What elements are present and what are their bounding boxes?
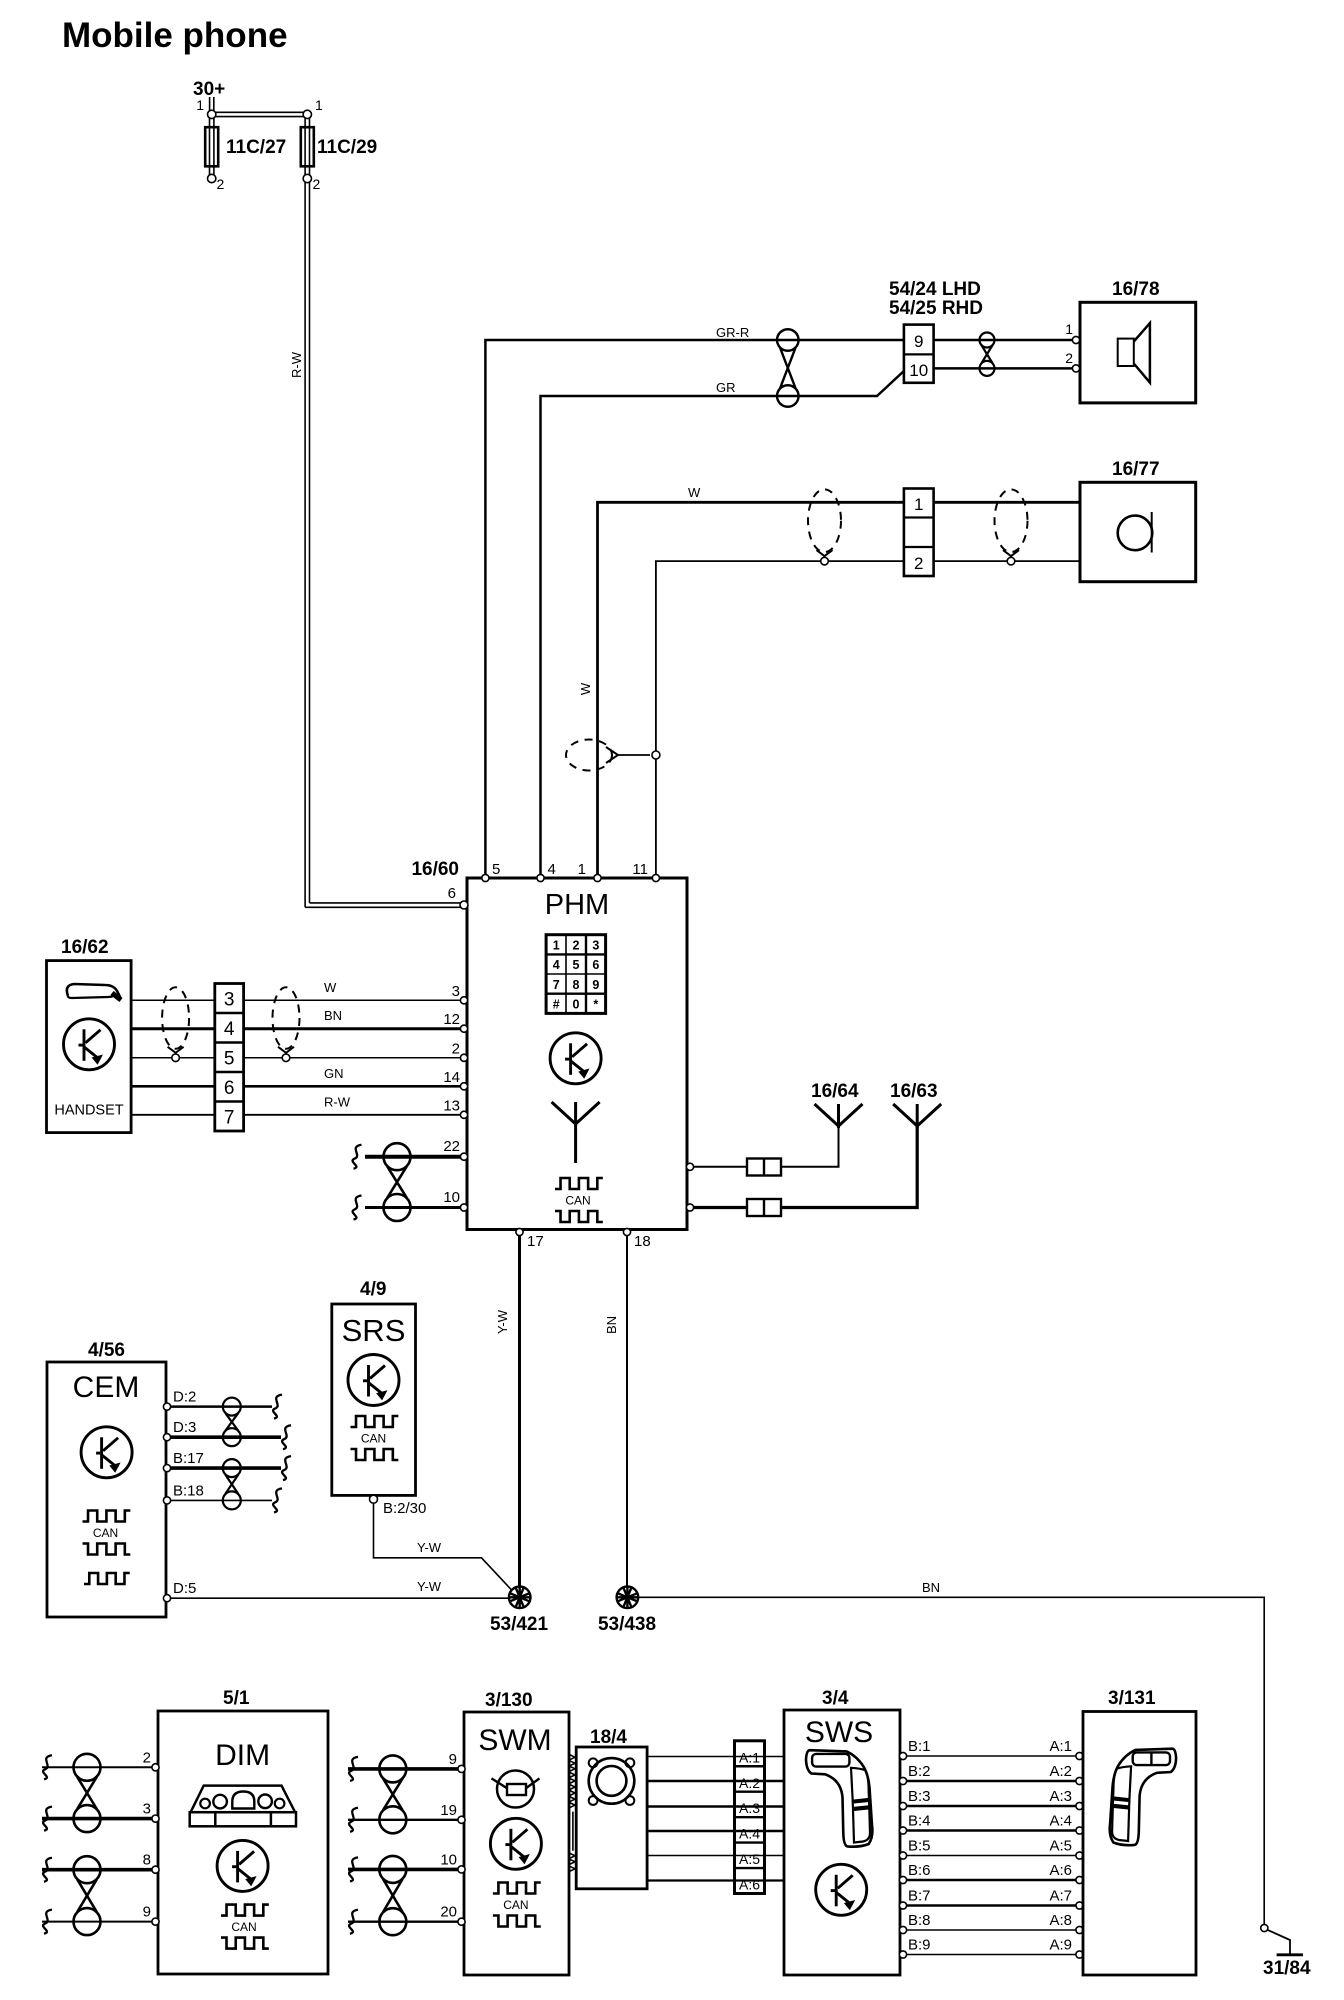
svg-text:3/4: 3/4 [822,1688,849,1709]
svg-text:A:3: A:3 [739,1800,760,1816]
wire Y-W PHM pin 17 to ground 53/421 [518,1233,521,1587]
svg-text:4: 4 [548,861,556,878]
pin B:5 SWS [899,1852,906,1859]
wire GR from PHM pin 4 to connector 54 [541,371,904,878]
svg-text:9: 9 [914,332,923,351]
ground 53/438 [617,1587,639,1609]
handset K symbol [64,1019,115,1070]
handset shield 1 [162,987,189,1049]
wire R-W double line to PHM pin 6 [304,182,306,907]
wire SWS B:4 to 3/131 A:4 [907,1829,1076,1832]
wire to antenna 16/64 [693,1166,747,1168]
svg-text:BN: BN [922,1580,940,1595]
svg-text:6: 6 [592,958,599,972]
wire SWM pin 20 [348,1920,460,1922]
svg-text:5/1: 5/1 [223,1688,250,1709]
break pin 10 cable [353,1196,362,1220]
svg-text:11C/27: 11C/27 [226,137,286,158]
wire 18/4 to SWS A:4 [647,1830,784,1833]
svg-text:B:3: B:3 [908,1788,931,1805]
pin 22 PHM [460,1153,467,1160]
pin B:6 SWS [899,1876,906,1883]
svg-text:D:3: D:3 [173,1419,196,1436]
svg-text:#: # [553,998,560,1012]
wire connector to PHM pin 2 [244,1057,463,1059]
CEM CAN symbol [83,1511,131,1522]
pin 3 DIM [152,1815,159,1822]
SWM K symbol [490,1818,541,1869]
svg-text:53/438: 53/438 [598,1614,656,1635]
pin 9 DIM [152,1918,159,1925]
ground 31/84 [1277,1953,1303,1956]
svg-text:GN: GN [324,1066,344,1081]
break CEM D:2 [273,1395,282,1419]
pin B:8 SWS [899,1926,906,1933]
inline connector antenna 16/63 [747,1199,781,1216]
wire 18/4 to SWS A:5 [647,1855,784,1857]
svg-text:B:17: B:17 [173,1450,204,1467]
break pin 22 cable [353,1145,362,1169]
break DIM pin 8 [43,1858,52,1882]
break CEM B:17 [282,1456,291,1480]
pin A:6 3/131 [1076,1876,1083,1883]
fuse 11C/29 [304,118,306,175]
PHM antenna symbol [552,1102,600,1126]
pin 1 speaker [1072,336,1079,343]
svg-text:17: 17 [527,1233,544,1250]
wire DIM pin 8 [42,1868,154,1872]
SWM to 18/4 pin bumps [570,1755,576,1760]
svg-text:W: W [688,485,701,500]
handset icon [67,984,121,999]
svg-text:2: 2 [573,939,580,953]
svg-text:53/421: 53/421 [490,1614,549,1635]
svg-text:A:6: A:6 [739,1877,760,1893]
svg-text:B:9: B:9 [908,1937,931,1954]
svg-text:R-W: R-W [289,351,304,378]
svg-text:18: 18 [634,1233,651,1250]
svg-text:1: 1 [1065,321,1073,337]
wire 18/4 to SWS A:1 [647,1756,784,1758]
svg-text:B:7: B:7 [908,1888,931,1905]
wire connector to microphone pin 2 [934,560,1080,562]
svg-text:A:6: A:6 [1049,1862,1072,1879]
svg-text:CAN: CAN [361,1432,386,1446]
svg-text:54/25 RHD: 54/25 RHD [889,298,983,319]
wire SWS B:3 to 3/131 A:3 [907,1805,1076,1808]
svg-text:16/64: 16/64 [811,1081,859,1102]
wire 18/4 to SWS A:2 [647,1780,784,1783]
wire connector to PHM pin 13 [244,1114,463,1116]
pin 1 PHM [594,874,601,881]
pin D:5 CEM [163,1595,170,1602]
svg-text:7: 7 [224,1108,235,1129]
svg-text:8: 8 [143,1852,151,1869]
wire SWS B:7 to 3/131 A:7 [907,1904,1076,1907]
inline connector antenna 16/64 [747,1159,781,1176]
svg-text:16/63: 16/63 [890,1081,938,1102]
svg-text:3: 3 [224,990,235,1011]
svg-text:BN: BN [604,1316,619,1334]
svg-text:10: 10 [443,1189,460,1206]
18/4 circular connector icon [589,1758,635,1804]
wire to ground terminal 31/84 [1267,1930,1290,1954]
svg-text:6: 6 [448,885,456,902]
svg-text:4/56: 4/56 [88,1340,125,1361]
svg-text:A:2: A:2 [1049,1763,1072,1780]
svg-text:16/60: 16/60 [411,859,459,880]
svg-text:BN: BN [324,1008,342,1023]
svg-text:3: 3 [143,1801,151,1818]
pin 5 PHM [482,874,489,881]
svg-text:CEM: CEM [73,1371,140,1404]
wire SWS B:1 to 3/131 A:1 [907,1755,1076,1757]
wire SWS B:6 to 3/131 A:6 [907,1879,1076,1882]
wire SWM pin 10 [348,1868,460,1872]
pin B:7 SWS [899,1902,906,1909]
twisted pair DIM 8/9 [74,1856,101,1883]
svg-text:10: 10 [440,1851,457,1868]
pin A:5 3/131 [1076,1852,1083,1859]
svg-text:SWS: SWS [805,1716,873,1749]
break CEM D:3 [282,1425,291,1449]
svg-text:4: 4 [224,1019,235,1040]
wire Y-W CEM D:5 to ground [170,1597,509,1599]
wire CEM B:18 [170,1499,272,1501]
pin 2 fuse 11C/27 [208,174,216,182]
CEM K symbol [81,1427,132,1478]
svg-text:9: 9 [592,978,599,992]
svg-text:54/24 LHD: 54/24 LHD [889,279,981,300]
DIM K symbol [217,1840,268,1891]
svg-text:16/77: 16/77 [1112,459,1160,480]
pin 10 PHM [460,1204,467,1211]
svg-text:31/84: 31/84 [1263,1958,1311,1979]
SWM CAN symbol [493,1883,541,1894]
svg-text:D:5: D:5 [173,1580,196,1597]
pin A:3 3/131 [1076,1802,1083,1809]
svg-text:A:1: A:1 [1049,1738,1072,1755]
svg-text:3: 3 [592,939,599,953]
pin 1 fuse 11C/27 [208,110,216,118]
svg-text:4: 4 [553,958,560,972]
svg-text:2: 2 [217,176,225,192]
pin 1 fuse 11C/29 [303,110,311,118]
twisted pair DIM 2/3 [74,1754,101,1781]
svg-text:A:2: A:2 [739,1775,760,1791]
svg-text:PHM: PHM [545,889,609,921]
CEM square wave symbol [84,1573,130,1584]
twisted pair SWM 10/20 [379,1856,406,1883]
connector 16/77 leads [904,489,934,577]
SRS CAN symbol [351,1416,399,1427]
wire Y-W from SRS to ground 53/421 [374,1503,514,1592]
svg-text:4/9: 4/9 [360,1279,386,1300]
svg-text:6: 6 [224,1078,235,1099]
wire 18/4 to SWS A:3 [647,1805,784,1808]
pin 2 fuse 11C/29 [303,174,311,182]
svg-text:A:3: A:3 [1049,1788,1072,1805]
wire connector to antenna 16/63 [781,1126,917,1208]
svg-text:2: 2 [313,176,321,192]
pin B:17 CEM [163,1465,170,1472]
svg-text:B:8: B:8 [908,1912,931,1929]
pin 14 PHM left [460,1083,467,1090]
pin D:3 CEM [163,1434,170,1441]
pin 4 PHM [537,874,544,881]
break SWM pin 20 [349,1910,358,1934]
svg-text:A:5: A:5 [739,1851,760,1867]
svg-text:B:6: B:6 [908,1862,931,1879]
svg-text:2: 2 [1065,350,1073,366]
svg-text:B:1: B:1 [908,1738,931,1755]
svg-text:GR-R: GR-R [716,325,749,340]
pin A:9 3/131 [1076,1951,1083,1958]
svg-text:*: * [593,998,598,1012]
svg-text:B:2/30: B:2/30 [383,1500,426,1517]
svg-text:A:8: A:8 [1049,1912,1072,1929]
pin 2 DIM [152,1764,159,1771]
svg-text:B:2: B:2 [908,1763,931,1780]
svg-text:19: 19 [440,1802,457,1819]
svg-text:14: 14 [443,1069,460,1086]
svg-text:2: 2 [452,1040,460,1057]
pin 19 SWM [458,1816,465,1823]
wire connector to PHM pin 14 [244,1085,463,1088]
wire W from PHM pin 1 to microphone [598,502,904,878]
break DIM pin 2 [43,1755,52,1779]
3/131 steering keypad icon [1110,1749,1176,1845]
svg-text:A:4: A:4 [1049,1813,1072,1830]
wire connector to PHM pin 3 [244,999,463,1001]
pin 20 SWM [458,1918,465,1925]
shield symbol on W wire mid [566,740,612,771]
svg-text:11: 11 [632,861,648,878]
pin 9 SWM [458,1765,465,1772]
svg-text:11C/29: 11C/29 [317,137,377,158]
pin A:8 3/131 [1076,1926,1083,1933]
handset shield 2 [273,987,300,1049]
DIM CAN symbol [221,1905,269,1916]
svg-text:A:1: A:1 [739,1749,760,1765]
svg-text:8: 8 [573,978,580,992]
svg-text:12: 12 [443,1011,460,1028]
svg-text:0: 0 [573,998,580,1012]
pin 3 PHM left [460,997,467,1004]
svg-text:CAN: CAN [565,1194,590,1208]
wire BN PHM pin 18 to ground 53/438 [626,1233,628,1587]
PHM K symbol [550,1033,601,1084]
break DIM pin 3 [43,1807,52,1831]
DIM dashboard icon [191,1786,296,1813]
svg-text:22: 22 [443,1138,460,1155]
svg-text:3/130: 3/130 [485,1690,533,1711]
twisted pair CEM B:17/B:18 [223,1459,241,1477]
pin A:2 3/131 [1076,1777,1083,1784]
svg-text:B:5: B:5 [908,1838,931,1855]
wire handset to connector y1114 [131,1114,215,1116]
PHM keypad icon [546,935,606,1014]
wire CEM B:17 [170,1466,281,1470]
SWS steering keypad icon [806,1750,872,1846]
svg-text:1: 1 [315,97,323,113]
wire PHM pin 10 screened cable [365,1206,463,1209]
svg-text:SWM: SWM [478,1724,551,1757]
pin 10 SWM [458,1866,465,1873]
wire SWM pin 19 [348,1819,460,1821]
svg-text:B:4: B:4 [908,1813,931,1830]
fuse 11C/27 [209,118,211,175]
svg-text:A:4: A:4 [739,1826,760,1842]
wire SWS B:9 to 3/131 A:9 [907,1954,1076,1956]
pin 8 DIM [152,1866,159,1873]
wire handset to connector y1000 [131,999,215,1001]
break SWM pin 10 [349,1857,358,1881]
svg-text:1: 1 [578,861,586,878]
connector block handset pins 3-7 [215,984,244,1132]
twisted pair 22/10 [384,1143,411,1170]
twisted pair speaker leads [980,333,995,348]
pin B:2 SWS [899,1777,906,1784]
PHM CAN symbol [555,1178,603,1189]
twisted pair SWM 9/19 [379,1755,406,1782]
svg-text:9: 9 [143,1904,151,1921]
wire SWS B:2 to 3/131 A:2 [907,1780,1076,1783]
wire DIM pin 3 [42,1817,154,1821]
pin B:9 SWS [899,1951,906,1958]
microphone icon [1118,516,1153,551]
svg-text:W: W [578,682,593,695]
wire SWS B:5 to 3/131 A:5 [907,1855,1076,1857]
shield symbol right of connector [995,489,1028,552]
wire CEM D:2 [170,1405,272,1408]
svg-text:3/131: 3/131 [1108,1688,1156,1709]
wire CEM D:3 [170,1435,281,1439]
svg-text:R-W: R-W [324,1094,351,1109]
pin 2 speaker [1072,365,1079,372]
pin A:7 3/131 [1076,1902,1083,1909]
shield symbol left of connector 16/77 [808,489,841,552]
svg-text:1: 1 [196,97,204,113]
svg-text:HANDSET: HANDSET [54,1103,123,1119]
wire connector 54 pin 9 to speaker pin 1 [934,339,1072,342]
wire 30+ feed double line [209,97,211,111]
break DIM pin 9 [43,1910,52,1934]
svg-text:Y-W: Y-W [417,1540,442,1555]
svg-text:2: 2 [914,554,923,573]
svg-text:DIM: DIM [215,1739,270,1772]
svg-text:Y-W: Y-W [417,1579,442,1594]
wire shield drain from PHM pin 11 to microphone [656,561,904,878]
wire handset to connector y1086 [131,1085,215,1088]
pin B:2/30 SRS [370,1495,378,1503]
SWS K symbol [816,1864,867,1915]
svg-text:20: 20 [440,1904,457,1921]
wire BN to ground 31/84 [638,1597,1264,1924]
svg-text:10: 10 [909,361,928,380]
svg-text:16/78: 16/78 [1112,279,1160,300]
pin PHM antenna feed upper [686,1163,693,1170]
pin B:4 SWS [899,1827,906,1834]
wire connector to antenna 16/64 [781,1126,839,1167]
svg-text:5: 5 [573,958,580,972]
svg-text:2: 2 [143,1749,151,1766]
svg-text:Mobile phone: Mobile phone [62,16,288,55]
wire connector 54 pin 10 to speaker pin 2 [934,367,1072,370]
wire connector to microphone pin 1 [934,501,1080,504]
svg-text:CAN: CAN [231,1920,256,1934]
wire PHM pin 22 screened cable [365,1155,463,1159]
wire DIM pin 9 [42,1921,154,1923]
SRS K symbol [348,1355,399,1406]
pin B:1 SWS [899,1752,906,1759]
svg-text:Y-W: Y-W [495,1309,510,1334]
twisted pair CEM D:2/D:3 [223,1398,241,1416]
break CEM B:18 [273,1488,282,1512]
wire connector to PHM pin 12 [244,1027,463,1030]
svg-text:CAN: CAN [503,1898,528,1912]
speaker icon [1118,339,1134,366]
wire handset to connector y1028 [131,1027,215,1030]
wire GR-R from PHM pin 5 to connector 54 [485,340,904,878]
svg-text:D:2: D:2 [173,1389,196,1406]
svg-text:13: 13 [443,1097,460,1114]
junction shield drain on pin 11 wire [652,751,660,759]
wire SWS B:8 to 3/131 A:8 [907,1929,1076,1931]
svg-text:16/62: 16/62 [61,937,109,958]
connector at ground 31/84 [1261,1924,1268,1931]
pin 6 PHM [460,901,468,909]
svg-text:GR: GR [716,380,736,395]
svg-text:A:5: A:5 [1049,1838,1072,1855]
wire to antenna 16/63 [693,1206,747,1209]
svg-text:18/4: 18/4 [590,1727,627,1748]
pin 2 PHM left [460,1054,467,1061]
pin A:1 3/131 [1076,1752,1083,1759]
pin 12 PHM left [460,1025,467,1032]
break SWM pin 19 [349,1808,358,1832]
wire SWM pin 9 [348,1767,460,1771]
svg-text:7: 7 [553,978,560,992]
svg-text:5: 5 [492,861,500,878]
break SWM pin 9 [349,1757,358,1781]
pin B:18 CEM [163,1497,170,1504]
connector block A:1-A:6 [735,1741,765,1894]
pin 13 PHM left [460,1111,467,1118]
wire DIM pin 2 [42,1766,154,1768]
svg-text:1: 1 [553,939,560,953]
svg-text:B:18: B:18 [173,1482,204,1499]
svg-text:A:9: A:9 [1049,1937,1072,1954]
wire fuse link horizontal double line [214,111,305,113]
svg-text:1: 1 [914,495,923,514]
svg-text:W: W [324,980,337,995]
svg-text:CAN: CAN [93,1526,118,1540]
pin A:4 3/131 [1076,1827,1083,1834]
pin D:2 CEM [163,1403,170,1410]
twisted pair GR-R/GR [777,329,799,351]
svg-text:SRS: SRS [342,1313,406,1348]
wire 18/4 to SWS A:6 [647,1879,784,1881]
pin 18 PHM [623,1228,630,1235]
svg-text:9: 9 [449,1751,457,1768]
svg-text:5: 5 [224,1049,235,1070]
pin B:3 SWS [899,1802,906,1809]
svg-text:A:7: A:7 [1049,1888,1072,1905]
SWM clock spring icon [497,1771,534,1808]
ground 53/421 [509,1587,531,1609]
pin 17 PHM [516,1228,523,1235]
